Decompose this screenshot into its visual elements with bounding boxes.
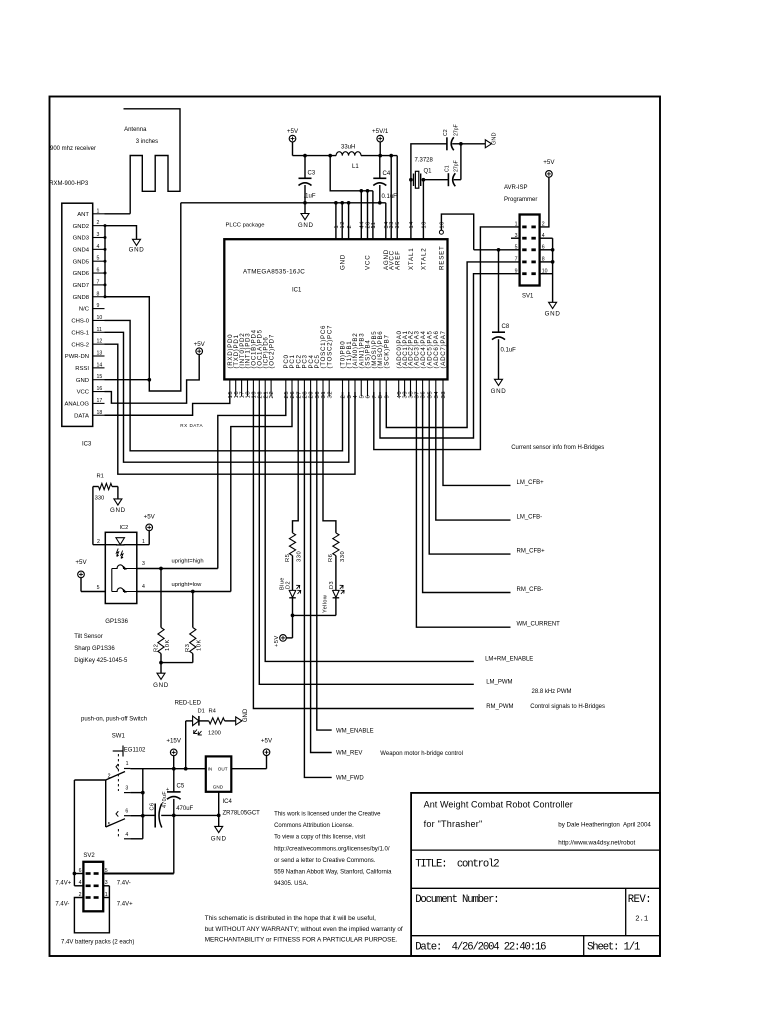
svg-text:10K: 10K [165, 639, 171, 651]
IC2 pin1 wire to +5V [124, 544, 150, 546]
svg-text:+5V: +5V [274, 635, 280, 647]
svg-text:Yellow: Yellow [323, 594, 329, 613]
svg-text:R2: R2 [153, 644, 159, 652]
IC1 pin (OC1B)PD4 [252, 379, 254, 396]
svg-text:Q1: Q1 [424, 169, 433, 175]
svg-text:http://www.wa4dsy.net/robot: http://www.wa4dsy.net/robot [558, 840, 635, 847]
svg-text:LM+RM_ENABLE: LM+RM_ENABLE [485, 657, 533, 663]
svg-text:33: 33 [441, 391, 447, 399]
IC1 pin (ADC4)PA4 [422, 379, 424, 396]
svg-text:R5: R5 [285, 554, 291, 562]
svg-text:28.8 kHz PWM: 28.8 kHz PWM [532, 689, 572, 695]
IC1 pin (SCK)PB7 [385, 379, 387, 396]
svg-text:5: 5 [108, 822, 111, 828]
svg-text:PWR-DN: PWR-DN [65, 354, 89, 360]
+5V (LEDs) [280, 635, 287, 642]
svg-text:25: 25 [284, 391, 290, 399]
crystal Q1 7.3728 [413, 174, 415, 187]
capacitor C1 27pF [447, 173, 449, 186]
svg-text:Tilt Sensor: Tilt Sensor [74, 634, 102, 640]
svg-text:WM_CURRENT: WM_CURRENT [517, 622, 561, 628]
svg-text:9: 9 [384, 395, 390, 399]
wire pin18 DATA to PD0 (RX DATA) [105, 392, 230, 415]
IC1 pin (ADC2)PA2 [410, 379, 412, 396]
svg-text:+5V: +5V [194, 341, 206, 348]
wire SV2 pin5 battery minus [103, 873, 174, 875]
svg-text:GND7: GND7 [73, 283, 89, 289]
svg-text:0.1uF: 0.1uF [382, 194, 398, 200]
svg-text:upright=high: upright=high [172, 558, 204, 564]
svg-text:26: 26 [290, 391, 296, 399]
+5V (IC2 pin5) [78, 571, 85, 578]
svg-text:Commons Attribution License.: Commons Attribution License. [274, 823, 354, 829]
svg-text:C2: C2 [443, 129, 449, 136]
IC1 pin PC5 [316, 379, 318, 396]
svg-text:2: 2 [97, 539, 100, 545]
svg-text:5: 5 [359, 395, 365, 399]
SV2 pads row 2 [86, 885, 91, 888]
wire PC6 to R6 [323, 392, 336, 533]
svg-text:27: 27 [296, 391, 302, 399]
svg-text:.1uF: .1uF [304, 194, 316, 200]
wire CHS-2 pin12 to PB2 [105, 344, 356, 474]
svg-text:ANT: ANT [77, 212, 89, 218]
svg-text:+5V: +5V [287, 128, 299, 135]
wire SV1 pin7 SCK [386, 262, 519, 428]
IC1 pin PC3 [303, 379, 305, 396]
svg-text:OUT: OUT [218, 767, 228, 772]
resistor R4 1200 [199, 720, 209, 722]
svg-text:IC2: IC2 [120, 525, 129, 531]
svg-text:2: 2 [341, 395, 347, 399]
schematic frame border [50, 97, 661, 957]
IC3 pin 16 VCC [93, 391, 105, 393]
svg-text:for "Thrasher": for "Thrasher" [424, 819, 483, 829]
wire WM_CURRENT [416, 392, 510, 627]
svg-text:R1: R1 [97, 474, 104, 480]
IC3 pin 8 GND8 [93, 296, 105, 298]
svg-text:GND4: GND4 [73, 247, 90, 253]
IC3 pin 4 GND4 [93, 248, 105, 250]
SW1 terminal 3 [124, 792, 130, 794]
svg-text:7.4V battery packs (2 each): 7.4V battery packs (2 each) [61, 939, 134, 945]
svg-text:This schematic is distributed: This schematic is distributed in the hop… [205, 915, 376, 922]
svg-text:1: 1 [371, 225, 377, 228]
IC2 phototransistor 2 [112, 588, 137, 592]
svg-text:http://creativecommons.org/lic: http://creativecommons.org/licenses/by/1… [274, 846, 390, 852]
+5V (ISP) [546, 171, 553, 178]
IC3 pin 15 GND [93, 379, 105, 381]
IC1 pin (ADC6)PA6 [435, 379, 437, 396]
+5V/1 rail [361, 155, 397, 157]
SV2 pin2 loop [74, 898, 109, 933]
wire SV1 pin1 MOSI [374, 227, 520, 450]
wire LM+RM_ENABLE [265, 392, 474, 661]
svg-text:+5V: +5V [261, 738, 273, 745]
IC1 pin (ADC1)PA1 [404, 379, 406, 396]
wire SV1 pin5 RESET [474, 249, 520, 251]
GND rail at top [181, 202, 386, 204]
SV2 pads row 3 [86, 896, 91, 899]
svg-text:3: 3 [97, 232, 100, 238]
IC2 pin5 wire to +5V [81, 591, 105, 593]
svg-text:C8: C8 [502, 324, 510, 330]
svg-text:DATA: DATA [74, 413, 89, 419]
svg-text:CHS-0: CHS-0 [71, 319, 89, 325]
wire PC2 to R5 [293, 392, 299, 533]
IC2 internal vertical [111, 569, 113, 592]
svg-text:4: 4 [97, 244, 100, 250]
svg-text:4: 4 [360, 225, 366, 228]
svg-text:+5V: +5V [543, 159, 555, 166]
svg-text:28: 28 [303, 391, 309, 399]
svg-text:VCC: VCC [77, 390, 90, 396]
wires R2,R3 to GND [160, 654, 162, 663]
regulator IC4 ZR78L05GCT [206, 756, 232, 791]
svg-text:+15V: +15V [166, 738, 181, 745]
svg-text:1: 1 [126, 761, 129, 767]
svg-text:CHS-2: CHS-2 [71, 342, 89, 348]
IC1 pin (TOSC2)PC7 [328, 379, 330, 396]
svg-text:C6: C6 [149, 803, 155, 811]
IC2 phototransistor 1 [112, 565, 137, 569]
IC1 pin (ADC7)PA7 [442, 379, 444, 396]
wire pin8/pin15 GND to rail [105, 203, 181, 391]
antenna [124, 109, 181, 214]
svg-text:C4: C4 [383, 171, 391, 177]
svg-text:TITLE: control2: TITLE: control2 [415, 859, 499, 871]
IC1 pin PC2 [297, 379, 299, 396]
IC1 pin (INT0)PD2 [241, 379, 243, 396]
svg-text:Date: 4/26/2004 22:40:16: Date: 4/26/2004 22:40:16 [415, 942, 546, 954]
svg-text:(TOSC2)PC7: (TOSC2)PC7 [326, 325, 333, 369]
svg-text:3: 3 [125, 786, 128, 792]
SV1 pads row 5 [522, 272, 526, 275]
wire CHS-1 pin11 to PB1 [105, 332, 349, 462]
svg-text:GND: GND [298, 222, 314, 229]
svg-text:Current sensor info from H-Bri: Current sensor info from H-Bridges [511, 445, 604, 451]
svg-text:EG1102: EG1102 [124, 748, 146, 754]
wire RESET to SV1 pin5 [441, 214, 473, 250]
svg-text:XTAL2: XTAL2 [421, 248, 428, 270]
svg-text:3: 3 [347, 395, 353, 399]
SV1 pads row 4 [522, 261, 526, 264]
svg-text:10: 10 [439, 221, 445, 228]
switch SW1 actuator [113, 750, 123, 752]
svg-text:7: 7 [372, 395, 378, 399]
resistor R2 10K [160, 569, 162, 628]
wire LM_CFB- [436, 392, 511, 520]
svg-text:34: 34 [434, 391, 440, 399]
+15V supply symbol [170, 749, 177, 756]
switch SW1 pole 2 [124, 815, 130, 817]
ground (R1) [114, 499, 122, 505]
svg-text:GND: GND [339, 254, 346, 270]
wire caps to GND [460, 144, 462, 180]
IC1 pin (T1)PB1 [348, 379, 350, 396]
wire WM_REV [311, 392, 332, 753]
svg-text:GND3: GND3 [73, 236, 90, 242]
SW1 terminal 4 [124, 838, 130, 840]
svg-text:MERCHANTABILITY or FITNESS FOR: MERCHANTABILITY or FITNESS FOR A PARTICU… [205, 937, 398, 944]
IC1 pin (ADC0)PA0 [398, 379, 400, 396]
svg-text:VCC: VCC [365, 255, 372, 270]
receiver connector IC3 (RXM-900-HP3) [62, 203, 93, 426]
IC3 pin 10 CHS-0 [93, 319, 105, 321]
IC1 pin (INT1)PD3 [247, 379, 249, 396]
svg-text:LM_CFB-: LM_CFB- [517, 515, 543, 521]
svg-text:GND: GND [211, 836, 227, 843]
svg-text:10: 10 [97, 315, 103, 321]
+15V rail [130, 768, 205, 770]
svg-text:1: 1 [97, 208, 100, 214]
svg-text:PLCC package: PLCC package [226, 222, 265, 228]
svg-text:Blue: Blue [279, 577, 285, 590]
svg-text:Sheet: 1/1: Sheet: 1/1 [587, 942, 640, 954]
IC3 pin 9 N/C [93, 308, 105, 310]
svg-text:GND: GND [492, 133, 498, 145]
svg-text:8: 8 [97, 291, 100, 297]
IC1 pin (OC2)PD7 [270, 379, 272, 396]
svg-text:Control signals to H-Bridges: Control signals to H-Bridges [530, 704, 605, 710]
svg-text:+5V: +5V [144, 514, 156, 521]
svg-text:12: 12 [97, 339, 103, 345]
SV1 pads row 1 [522, 226, 526, 229]
+5V/1 supply symbol [377, 135, 384, 142]
svg-text:L1: L1 [352, 164, 359, 170]
svg-text:C3: C3 [308, 171, 316, 177]
IC3 pin 5 GND5 [93, 260, 105, 262]
IC3 pin 6 GND6 [93, 272, 105, 274]
wire RM_PWM [253, 392, 473, 709]
capacitor C6 (electrolytic) [143, 814, 155, 816]
wire pin15 GND [105, 379, 150, 381]
GND bus receiver pins 2-8 [104, 226, 106, 297]
SV1 pin3 stub [511, 237, 520, 239]
svg-text:17: 17 [97, 398, 103, 404]
svg-text:GND: GND [213, 784, 224, 789]
svg-text:IC3: IC3 [82, 442, 92, 448]
battery + wire to SV2 [73, 780, 75, 886]
svg-text:32: 32 [327, 391, 333, 399]
svg-text:2: 2 [97, 220, 100, 226]
svg-text:11: 11 [97, 327, 102, 333]
svg-text:R3: R3 [185, 644, 191, 652]
SV1 pads row 2 [522, 237, 526, 240]
wire ANT pin1 to antenna [105, 213, 131, 215]
svg-text:RESET: RESET [439, 245, 446, 270]
svg-text:GND: GND [153, 682, 169, 689]
capacitor C4 0.1uF [379, 156, 381, 179]
IC2 pin3 wire upright=high [137, 568, 218, 570]
svg-text:(ADC6)PA6: (ADC6)PA6 [433, 330, 440, 368]
wires SV1 pins 4,6,8,10 GND [540, 237, 553, 239]
IC1 pin (ICP)PD6 [264, 379, 266, 396]
IC1 pin (AIN1)PB3 [360, 379, 362, 396]
svg-text:ATMEGA8535-16JC: ATMEGA8535-16JC [243, 268, 305, 275]
+5V (receiver VCC) [196, 348, 203, 355]
svg-text:RM_CFB-: RM_CFB- [517, 587, 544, 593]
svg-text:7.4V-: 7.4V- [55, 902, 69, 908]
svg-text:D3: D3 [329, 581, 335, 589]
svg-text:but WITHOUT ANY WARRANTY; with: but WITHOUT ANY WARRANTY; without even t… [205, 926, 403, 933]
svg-text:16: 16 [97, 386, 103, 392]
svg-text:GND5: GND5 [73, 259, 90, 265]
svg-text:IN: IN [208, 767, 213, 772]
svg-text:D2: D2 [286, 581, 292, 589]
svg-text:GND: GND [129, 247, 145, 254]
svg-text:GND2: GND2 [73, 224, 89, 230]
svg-text:LM_PWM: LM_PWM [486, 680, 512, 686]
svg-text:8: 8 [378, 395, 384, 399]
svg-text:330: 330 [95, 496, 105, 502]
svg-text:RED-LED: RED-LED [175, 700, 202, 706]
svg-text:6: 6 [97, 268, 100, 274]
wire to +5V (LEDs) [292, 615, 294, 638]
svg-text:R4: R4 [209, 709, 217, 715]
LED D2 Blue [289, 590, 296, 597]
IC3 pin 14 RSSI [93, 367, 105, 369]
svg-text:3: 3 [142, 561, 145, 567]
svg-text:27pF: 27pF [454, 160, 460, 172]
SV2 pin6,4 stubs [74, 873, 83, 875]
svg-text:94305. USA.: 94305. USA. [274, 881, 308, 887]
svg-text:15: 15 [97, 374, 103, 380]
svg-text:To view a copy of this license: To view a copy of this license, visit [274, 835, 365, 841]
+5V (IC4 out) [263, 749, 270, 756]
svg-text:WM_REV: WM_REV [336, 751, 362, 757]
ground (C8) [495, 379, 503, 385]
wire pin2 to GND [105, 226, 137, 240]
svg-text:900 mhz receiver: 900 mhz receiver [50, 146, 96, 152]
svg-text:5: 5 [97, 585, 100, 591]
svg-text:1200: 1200 [208, 731, 221, 737]
SV2 pads row 1 [86, 872, 91, 875]
IC1 pin (SS)PB4 [367, 379, 369, 396]
svg-text:12: 12 [340, 221, 346, 228]
svg-text:2: 2 [347, 225, 353, 228]
wire RM_CFB+ [429, 392, 510, 554]
svg-text:10K: 10K [197, 639, 203, 651]
wire IC4 OUT to +5V [231, 768, 266, 770]
svg-text:SV2: SV2 [83, 853, 95, 859]
svg-text:330: 330 [296, 551, 302, 562]
svg-text:14: 14 [409, 221, 415, 228]
resistor R6 330 [333, 533, 339, 556]
RESET pin bubble [439, 230, 443, 234]
svg-text:36: 36 [421, 391, 427, 399]
svg-text:0.1uF: 0.1uF [501, 348, 517, 354]
ground (crystal, rotated) [485, 140, 491, 148]
wire SW1 common to battery [74, 779, 105, 781]
svg-text:7.4V-: 7.4V- [117, 881, 131, 887]
resistor R5 330 [289, 533, 295, 556]
IC3 pin 12 CHS-2 [93, 343, 105, 345]
svg-text:35: 35 [395, 221, 401, 228]
capacitor C5 470uF [173, 769, 175, 792]
svg-text:RX DATA: RX DATA [180, 423, 203, 428]
ground (SV1) [549, 302, 557, 308]
svg-text:+5V: +5V [75, 559, 87, 566]
ground (C3) [301, 214, 309, 220]
svg-text:Weapon motor h-bridge control: Weapon motor h-bridge control [380, 751, 463, 757]
svg-text:push-on, push-off Switch: push-on, push-off Switch [81, 717, 147, 723]
svg-text:GND8: GND8 [73, 295, 90, 301]
svg-text:27pF: 27pF [454, 124, 460, 136]
svg-text:7.4V+: 7.4V+ [117, 902, 133, 908]
wire WM_ENABLE [317, 392, 332, 730]
IC3 pin 18 DATA [93, 414, 105, 416]
IC3 pin 2 GND2 [93, 225, 105, 227]
svg-text:LM_CFB+: LM_CFB+ [517, 480, 545, 486]
SV1 pads row 3 [522, 248, 526, 251]
+5V (IC2 pin1) [146, 524, 153, 531]
optocoupler IC2 GP1S36 [105, 532, 137, 603]
svg-text:13: 13 [421, 221, 427, 228]
svg-text:470uF: 470uF [176, 806, 193, 812]
ground (D1/R4, rotated) [236, 717, 242, 725]
svg-text:RM_PWM: RM_PWM [486, 704, 513, 710]
svg-text:XTAL1: XTAL1 [408, 248, 415, 270]
svg-text:AREF: AREF [394, 250, 401, 270]
svg-text:Ant Weight Combat Robot Contro: Ant Weight Combat Robot Controller [424, 800, 573, 810]
ground (R2/R3) [157, 673, 165, 679]
svg-text:33uH: 33uH [341, 145, 355, 151]
svg-text:2.1: 2.1 [635, 916, 648, 924]
svg-text:upright=low: upright=low [172, 582, 203, 588]
svg-text:(ADC7)PA7: (ADC7)PA7 [440, 330, 447, 368]
IC2 pin4 wire upright=low [137, 591, 231, 593]
svg-text:DigiKey 425-1045-5: DigiKey 425-1045-5 [74, 658, 128, 664]
svg-text:CHS-1: CHS-1 [71, 330, 89, 336]
svg-text:GND: GND [491, 388, 507, 395]
IC1 pin (TXD)PD1 [235, 379, 237, 396]
svg-text:2: 2 [108, 773, 111, 779]
wire pin16 VCC to +5V [105, 354, 200, 403]
svg-text:Antenna: Antenna [124, 127, 147, 133]
IC2 pin2 wire [93, 544, 117, 546]
IC3 pin 17 ANALOG [93, 402, 105, 404]
svg-text:RXM-900-HP3: RXM-900-HP3 [49, 181, 89, 187]
svg-text:GND: GND [76, 378, 89, 384]
IC1 pin PC4 [310, 379, 312, 396]
svg-text:7.4V+: 7.4V+ [55, 881, 71, 887]
wire LED cathodes join [293, 614, 336, 616]
svg-text:4: 4 [353, 395, 359, 399]
IC3 pin 3 GND3 [93, 237, 105, 239]
svg-text:IC1: IC1 [292, 288, 302, 294]
IC1 pin (TOSC1)PC6 [322, 379, 324, 396]
svg-text:C1: C1 [445, 165, 451, 172]
svg-text:IC4: IC4 [223, 799, 233, 805]
svg-text:by Dale Heatherington April 2: by Dale Heatherington April 2004 [558, 822, 651, 829]
svg-text:GND6: GND6 [73, 271, 90, 277]
svg-text:(OC2)PD7: (OC2)PD7 [268, 334, 275, 368]
svg-text:GND: GND [243, 708, 249, 722]
svg-text:N/C: N/C [79, 307, 90, 313]
svg-text:6: 6 [125, 808, 128, 814]
wire AVCC/AREF from +5V/1 [390, 156, 392, 240]
svg-text:This work is licensed under th: This work is licensed under the Creative [274, 812, 381, 818]
IC1 pin (ADC5)PA5 [428, 379, 430, 396]
IC1 pin (MISO)PB6 [379, 379, 381, 396]
svg-text:7: 7 [97, 279, 100, 285]
wire LM_CFB+ [443, 392, 511, 485]
svg-text:R6: R6 [328, 554, 334, 562]
ground (IC4) [215, 826, 223, 832]
resistor R1 330 [99, 483, 113, 489]
svg-text:SW1: SW1 [112, 734, 126, 740]
